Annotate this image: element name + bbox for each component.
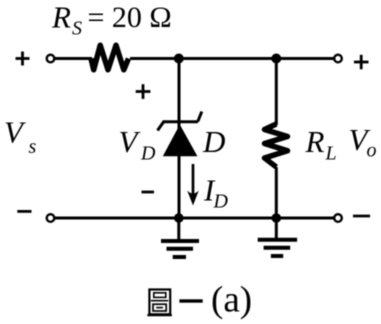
svg-text:(a): (a) bbox=[211, 280, 252, 321]
svg-text:D: D bbox=[202, 124, 225, 159]
svg-text:D: D bbox=[140, 143, 156, 165]
svg-text:L: L bbox=[325, 143, 337, 165]
svg-text:R: R bbox=[305, 124, 325, 159]
svg-text:V: V bbox=[119, 124, 141, 159]
svg-text:V: V bbox=[4, 115, 26, 150]
svg-text:s: s bbox=[29, 136, 37, 158]
svg-text:S: S bbox=[72, 18, 82, 40]
svg-text:D: D bbox=[213, 191, 229, 213]
svg-text:= 20 Ω: = 20 Ω bbox=[88, 1, 172, 34]
svg-text:o: o bbox=[367, 140, 377, 162]
svg-text:R: R bbox=[51, 0, 71, 35]
